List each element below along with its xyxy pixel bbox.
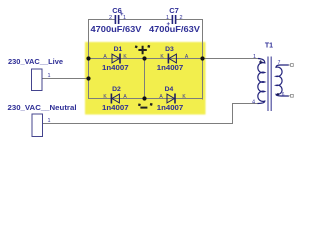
bridge rectifier highlight box: [85, 42, 206, 115]
diode D2: [111, 94, 119, 104]
junction node minus output: [142, 96, 146, 100]
svg-text:1: 1: [48, 73, 51, 79]
svg-text:2: 2: [180, 15, 183, 21]
junction node D1 anode / left bus: [86, 56, 90, 60]
transformer T1 core: [268, 57, 271, 112]
transformer T1 primary winding: [258, 59, 265, 104]
wire top bus segment right of C7: [176, 19, 203, 21]
wire stub T1 pin 7: [289, 64, 291, 66]
diode D3: [168, 54, 176, 64]
svg-text:230_VAC__Live: 230_VAC__Live: [8, 57, 63, 66]
capacitor C6: [115, 15, 118, 24]
svg-text:T1: T1: [265, 42, 273, 49]
svg-text:7: 7: [278, 60, 281, 66]
svg-text:4700uF/63V: 4700uF/63V: [149, 24, 201, 34]
wire top diode row: [89, 58, 259, 60]
svg-text:2: 2: [109, 15, 112, 21]
wire left vertical bus: [88, 19, 90, 99]
svg-text:4700uF/63V: 4700uF/63V: [91, 24, 143, 34]
svg-text:1: 1: [166, 15, 169, 21]
svg-text:C7: C7: [169, 6, 179, 15]
svg-text:1n4007: 1n4007: [102, 105, 129, 112]
svg-text:D2: D2: [112, 86, 121, 93]
connector J live: [32, 69, 43, 91]
T1 secondary polarity dot: [277, 93, 279, 95]
svg-text:1n4007: 1n4007: [102, 65, 129, 72]
junction node live input / left bus: [86, 76, 90, 80]
svg-text:4: 4: [252, 100, 255, 106]
node minus net label: [138, 103, 153, 109]
svg-text:230_VAC__Neutral: 230_VAC__Neutral: [8, 103, 77, 112]
unconnected terminal square pin 7: [291, 64, 294, 67]
unconnected terminal square pin 6: [291, 94, 294, 97]
svg-text:6: 6: [282, 92, 285, 98]
wire right vertical bus: [202, 19, 204, 100]
wire top bus segment left of C6: [89, 19, 115, 21]
svg-text:1n4007: 1n4007: [157, 65, 184, 72]
T1 primary polarity plus mark: [259, 60, 262, 63]
svg-text:D1: D1: [114, 46, 123, 53]
svg-text:D3: D3: [165, 46, 174, 53]
svg-text:1n4007: 1n4007: [157, 105, 184, 112]
wire live input: [43, 78, 89, 80]
transformer T1 secondary winding: [276, 65, 289, 96]
svg-text:1: 1: [123, 15, 126, 21]
wire top bus segment between C6 and C7: [119, 19, 172, 21]
wire neutral input run: [43, 104, 258, 124]
connector J neutral: [32, 114, 43, 137]
wire bottom diode row: [88, 98, 203, 100]
svg-text:D4: D4: [165, 86, 174, 93]
node plus net label: [135, 45, 151, 54]
junction node plus output: [142, 56, 146, 60]
diode D1: [112, 54, 120, 64]
capacitor C7: [172, 15, 175, 24]
diode D4: [167, 94, 175, 104]
svg-text:1: 1: [253, 54, 256, 60]
junction node D3 anode / right bus: [200, 56, 204, 60]
wire stub T1 pin 6: [289, 95, 291, 97]
wire middle vertical between + and - junctions: [144, 59, 146, 99]
svg-text:1: 1: [48, 118, 51, 124]
